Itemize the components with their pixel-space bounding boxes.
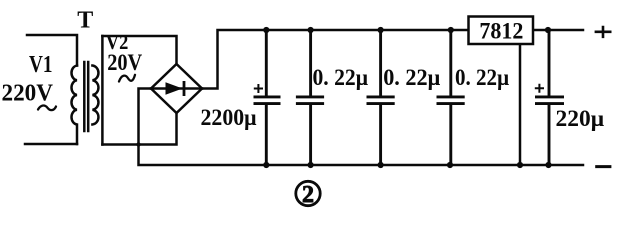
junction dot bottom C1 <box>263 162 269 168</box>
junction dot bottom regulator ground <box>517 162 523 168</box>
capacitor C1 2200u top lead <box>265 30 268 96</box>
junction dot bottom C2 <box>308 162 314 168</box>
junction dot top C1 <box>263 27 269 33</box>
wire secondary top to bridge <box>102 36 176 64</box>
bridge rectifier U1 diamond <box>151 64 202 113</box>
wire bridge right vertex to positive rail <box>202 30 469 89</box>
svg-text:2200μ: 2200μ <box>201 105 257 130</box>
capacitor C4 plates <box>437 95 465 98</box>
capacitor C3 0.22u bottom lead <box>379 105 382 165</box>
output plus terminal <box>595 26 612 38</box>
capacitor C1 plates <box>254 95 281 98</box>
AC tilde under 220V <box>38 106 56 111</box>
wire positive rail after regulator <box>533 29 583 32</box>
svg-text:0. 22μ: 0. 22μ <box>455 65 509 90</box>
wire secondary lead vertical <box>101 36 104 145</box>
output minus terminal <box>595 165 611 168</box>
diode lead line inside bridge <box>151 87 202 90</box>
svg-text:0. 22μ: 0. 22μ <box>313 65 369 90</box>
svg-text:T: T <box>77 8 93 34</box>
wire primary top lead <box>27 35 77 66</box>
regulator U2 7812 box <box>469 17 534 45</box>
junction dot bottom C5 <box>545 162 551 168</box>
capacitor C5 plates <box>535 95 564 98</box>
capacitor C2 plates <box>296 95 324 98</box>
junction dot bottom C3 <box>378 162 384 168</box>
junction dot top C3 <box>378 27 384 33</box>
capacitor C5 220u bottom lead <box>548 105 551 165</box>
junction dot top C4 <box>448 27 454 33</box>
diode cathode bar <box>183 81 186 96</box>
svg-text:0. 22μ: 0. 22μ <box>383 65 440 90</box>
capacitor C3 0.22u top lead <box>379 30 382 96</box>
transformer core bar 1 <box>83 62 86 131</box>
svg-text:7812: 7812 <box>479 18 523 43</box>
capacitor C1 2200u bottom lead <box>265 105 268 165</box>
capacitor C5 polarity plus <box>535 84 544 93</box>
capacitor C2 0.22u top lead <box>309 30 312 96</box>
junction dot top C2 <box>308 27 314 33</box>
figure number circle 2 <box>296 181 320 205</box>
diode triangle inside bridge <box>166 82 183 95</box>
transformer T primary winding <box>71 66 77 145</box>
transformer T secondary winding <box>92 66 98 125</box>
svg-text:20V: 20V <box>107 50 142 75</box>
wire primary bottom lead <box>25 143 77 146</box>
wire secondary bottom to bridge bottom vertex <box>102 113 176 145</box>
capacitor C4 0.22u bottom lead <box>449 105 452 165</box>
capacitor C5 220u top lead <box>548 30 551 96</box>
svg-text:V1: V1 <box>29 52 53 78</box>
svg-text:2: 2 <box>302 182 314 208</box>
junction dot top C5 <box>545 27 551 33</box>
wire bridge left vertex to negative rail <box>139 89 584 166</box>
capacitor C2 0.22u bottom lead <box>309 105 312 165</box>
capacitor C1 polarity plus <box>254 84 263 93</box>
wire regulator ground lead <box>519 44 522 165</box>
junction dot bottom C4 <box>447 162 453 168</box>
transformer core bar 2 <box>87 62 90 131</box>
wire crossing ink blob <box>136 142 140 146</box>
capacitor C4 0.22u top lead <box>449 30 452 96</box>
svg-text:220μ: 220μ <box>556 106 605 131</box>
svg-text:220V: 220V <box>2 81 54 107</box>
AC tilde under 20V <box>119 75 135 82</box>
capacitor C3 plates <box>367 95 395 98</box>
